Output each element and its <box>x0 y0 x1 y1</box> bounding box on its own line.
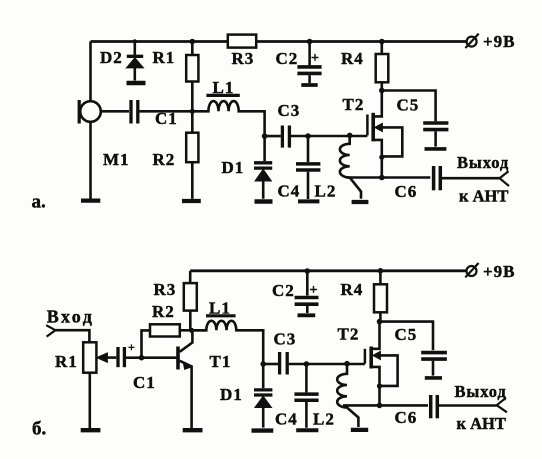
svg-text:D1: D1 <box>220 385 243 404</box>
antenna arrow (b) <box>497 398 507 413</box>
inductor L2 <box>340 135 361 198</box>
capacitor C6 <box>432 166 436 190</box>
varicap D1 <box>263 136 266 161</box>
svg-text:+: + <box>310 283 318 298</box>
ground (D1) <box>255 199 273 203</box>
svg-text:к АНТ: к АНТ <box>457 414 506 433</box>
resistor R2 (b) <box>150 324 180 336</box>
svg-text:T2: T2 <box>343 95 365 114</box>
capacitor C5 <box>382 91 436 122</box>
svg-text:C6: C6 <box>395 408 418 427</box>
svg-text:R2: R2 <box>153 150 176 169</box>
svg-text:C4: C4 <box>275 410 298 429</box>
wire node line / capacitor C3 (b) <box>260 361 266 367</box>
svg-text:C5: C5 <box>397 96 420 115</box>
wire node line / capacitor C3 <box>262 133 268 139</box>
svg-text:C4: C4 <box>278 182 301 201</box>
transistor T2 (b) <box>364 349 367 364</box>
terminal +9V (b) <box>467 266 477 276</box>
inductor L1 <box>206 94 239 97</box>
ground (D2) <box>127 81 146 85</box>
capacitor C2 <box>307 39 313 45</box>
wire microphone to ground <box>89 122 92 199</box>
svg-text:C1: C1 <box>133 373 156 392</box>
svg-text:C1: C1 <box>155 109 178 128</box>
svg-text:Выход: Выход <box>457 153 509 172</box>
inductor L2 (b) <box>337 364 358 427</box>
svg-text:Вход: Вход <box>47 307 95 327</box>
svg-text:D2: D2 <box>100 48 123 67</box>
wire rail left drop to microphone <box>89 42 92 102</box>
terminal +9V (a) <box>467 37 477 47</box>
ground (T1) <box>183 428 203 432</box>
svg-text:R1: R1 <box>55 352 78 371</box>
svg-text:C3: C3 <box>278 101 301 120</box>
svg-text:M1: M1 <box>103 150 130 169</box>
svg-text:L1: L1 <box>213 78 235 97</box>
ground (L2 b) <box>351 428 368 432</box>
svg-text:+9В: +9В <box>483 262 516 281</box>
capacitor C1 (b) <box>116 347 119 367</box>
wire collector node (b) <box>180 329 207 332</box>
resistor R3 (b) <box>184 283 197 311</box>
diode D2 <box>133 39 137 43</box>
svg-text:R4: R4 <box>341 280 364 299</box>
svg-text:R3: R3 <box>232 49 255 68</box>
svg-text:R2: R2 <box>152 302 175 321</box>
svg-text:R1: R1 <box>153 48 176 67</box>
transistor T2 <box>374 91 382 117</box>
capacitor C2 (b) <box>305 268 311 274</box>
varicap D1 (b) <box>262 364 265 388</box>
input arrow (b) <box>46 325 55 336</box>
capacitor C6 (b) <box>429 395 433 418</box>
capacitor C1 <box>129 100 132 124</box>
ground (C4 b) <box>296 428 318 432</box>
svg-text:L1: L1 <box>209 299 231 318</box>
svg-text:C6: C6 <box>395 182 418 201</box>
ground (R2) <box>182 199 201 203</box>
svg-text:L2: L2 <box>315 182 337 201</box>
ground (C2 b) <box>298 313 316 317</box>
svg-text:к АНТ: к АНТ <box>459 187 508 206</box>
svg-text:C2: C2 <box>276 49 299 68</box>
svg-text:D1: D1 <box>222 158 245 177</box>
svg-text:C3: C3 <box>274 330 297 349</box>
svg-text:C2: C2 <box>272 281 295 300</box>
resistor R1 <box>191 42 194 56</box>
ground (L2) <box>352 200 369 204</box>
svg-text:R4: R4 <box>341 49 364 68</box>
resistor R3 <box>228 35 256 48</box>
ground (R1 b) <box>81 428 101 432</box>
node T2 drain <box>379 88 385 94</box>
microphone M1 <box>80 101 101 122</box>
svg-text:б.: б. <box>32 419 46 440</box>
resistor R2 <box>191 111 194 132</box>
wire output line (a) <box>347 176 431 179</box>
wire microphone to C1 <box>101 110 129 113</box>
antenna arrow (a) <box>500 171 510 186</box>
capacitor C5 (b) <box>380 322 434 351</box>
svg-text:Выход: Выход <box>455 382 507 401</box>
capacitor C4 (b) <box>305 364 308 392</box>
potentiometer R1 (b) <box>83 342 96 372</box>
svg-text:C5: C5 <box>395 325 418 344</box>
node R1 top <box>190 39 196 45</box>
svg-text:L2: L2 <box>313 410 335 429</box>
resistor R4 <box>379 39 385 45</box>
wire C1 to node <box>140 110 193 113</box>
capacitor C4 <box>307 136 310 162</box>
resistor R4 (b) <box>378 268 384 274</box>
svg-text:T1: T1 <box>210 352 232 371</box>
wire output line (b) <box>343 404 428 407</box>
ground (C4) <box>298 199 319 203</box>
inductor L1 (b) <box>206 314 236 317</box>
ground (M1) <box>81 199 100 203</box>
ground (C2) <box>301 83 317 87</box>
svg-text:+9В: +9В <box>483 32 516 51</box>
wiper arrow into R1 <box>97 353 108 363</box>
svg-text:R3: R3 <box>154 280 177 299</box>
svg-text:+: + <box>128 340 135 354</box>
svg-text:T2: T2 <box>338 325 360 344</box>
wire +9V top rail <box>91 40 467 43</box>
wire +9V bottom rail <box>190 269 466 272</box>
svg-text:а.: а. <box>32 192 46 213</box>
ground (D1 b) <box>252 428 274 432</box>
svg-text:+: + <box>311 51 319 66</box>
transistor T1 <box>142 356 177 359</box>
